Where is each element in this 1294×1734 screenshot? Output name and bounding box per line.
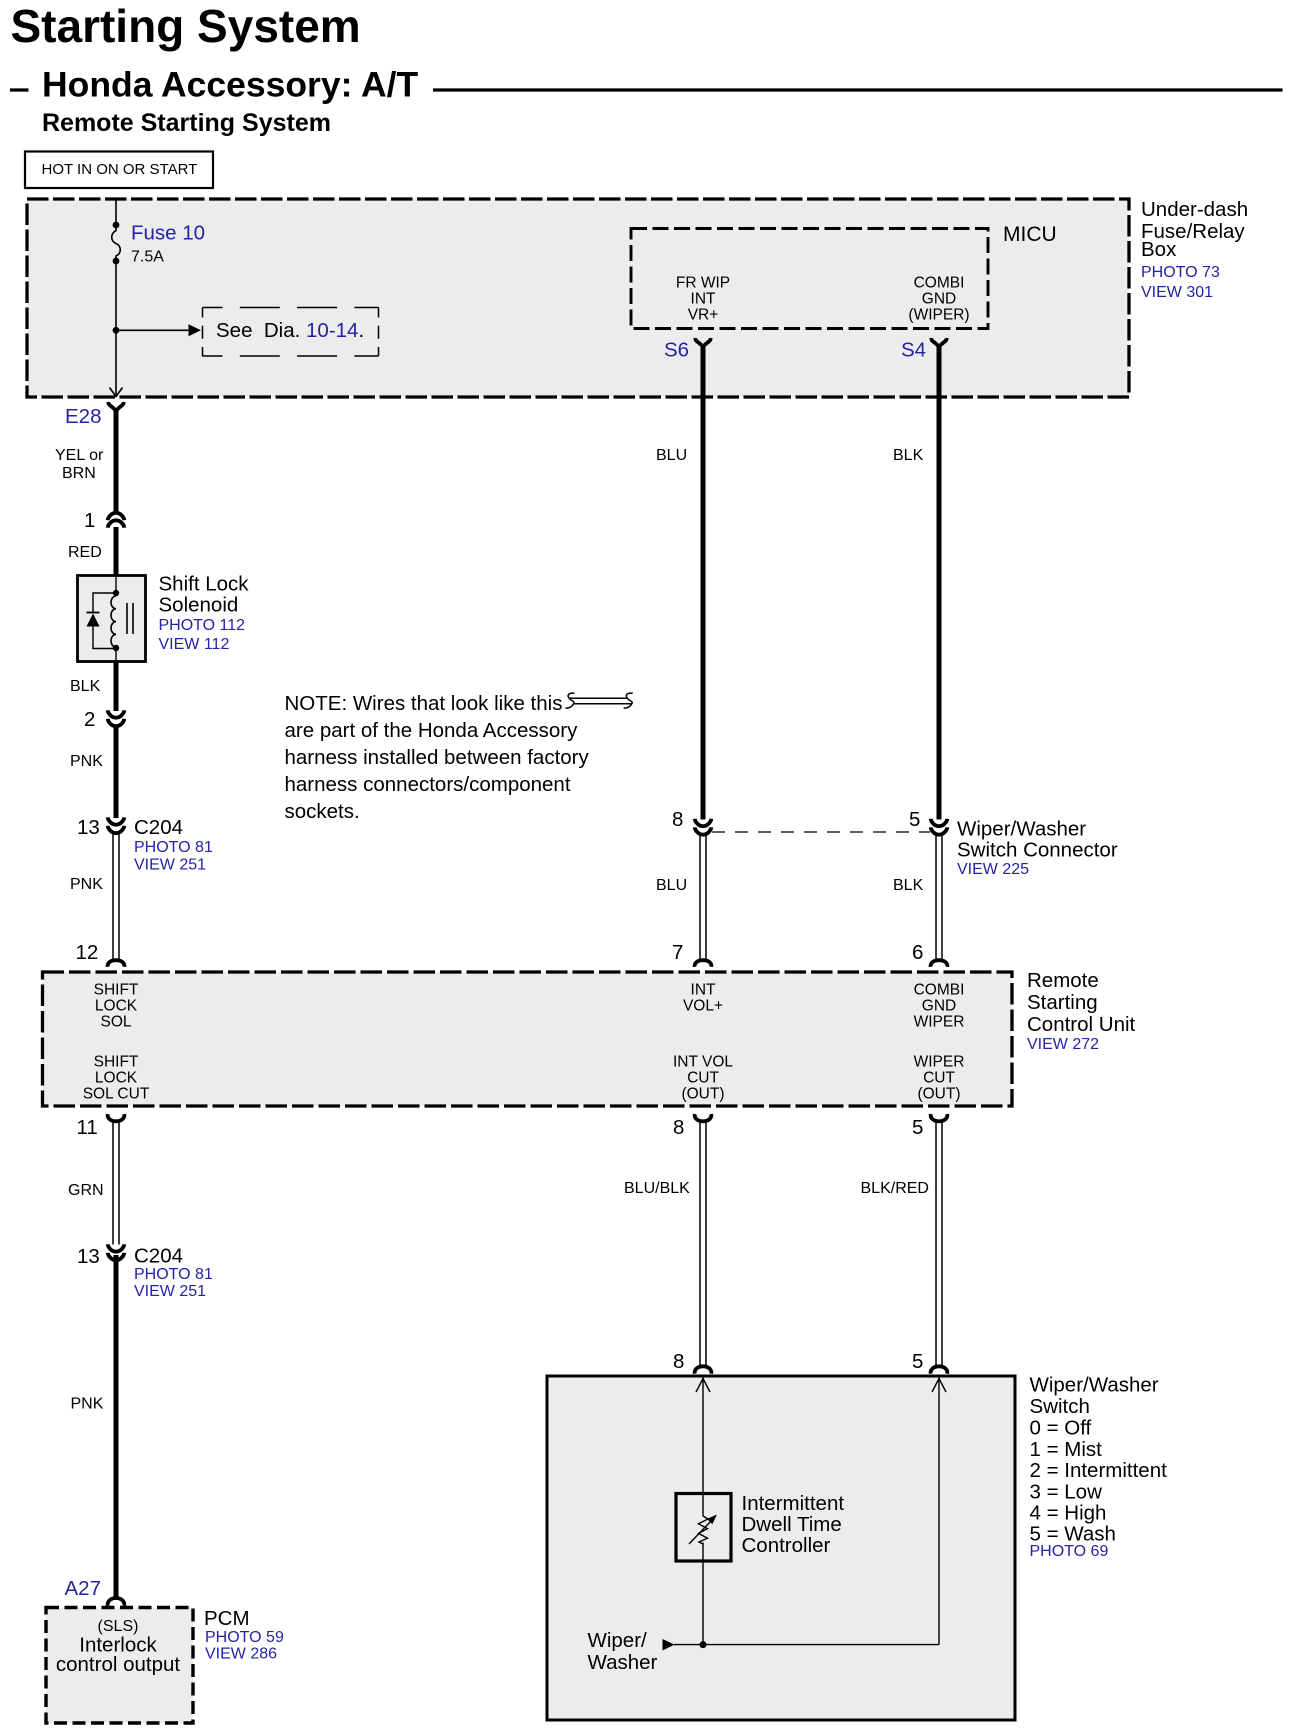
svg-text:MICU: MICU bbox=[1003, 223, 1057, 246]
svg-text:BLK/RED: BLK/RED bbox=[861, 1180, 929, 1197]
svg-text:1: 1 bbox=[84, 509, 95, 532]
remote starting control unit box bbox=[43, 972, 1013, 1106]
fuse Fuse 10 7.5A bbox=[112, 225, 121, 262]
wire PNK (connector 2 to C204) bbox=[114, 728, 119, 819]
svg-text:E28: E28 bbox=[65, 405, 101, 428]
internal wire from pin 5 down bbox=[938, 1378, 940, 1645]
solenoid coil bbox=[111, 596, 116, 647]
svg-text:INT VOL: INT VOL bbox=[673, 1054, 733, 1071]
arrowhead wiper/washer bbox=[663, 1639, 675, 1651]
svg-text:BLK: BLK bbox=[893, 447, 924, 464]
svg-text:VR+: VR+ bbox=[688, 307, 719, 324]
solenoid bottom node dot bbox=[113, 645, 119, 651]
wire BLK/RED (5 to wiper switch 5, accessory double wire) bbox=[935, 1122, 937, 1366]
svg-text:Switch: Switch bbox=[1030, 1395, 1090, 1418]
svg-text:BLU/BLK: BLU/BLK bbox=[624, 1180, 690, 1197]
wire RED (connector 1 to solenoid) bbox=[114, 527, 119, 577]
arrowhead up at pin 5 internal bbox=[932, 1379, 946, 1393]
svg-text:harness connectors/component: harness connectors/component bbox=[285, 773, 571, 796]
svg-text:GND: GND bbox=[922, 291, 956, 308]
svg-text:PNK: PNK bbox=[70, 753, 103, 770]
svg-text:12: 12 bbox=[76, 941, 99, 964]
under-dash fuse/relay box bbox=[27, 199, 1129, 397]
svg-text:S6: S6 bbox=[664, 339, 689, 362]
svg-text:C204: C204 bbox=[134, 816, 183, 839]
svg-text:BLK: BLK bbox=[893, 877, 924, 894]
heading rule right bbox=[433, 88, 1283, 91]
svg-text:PHOTO 69: PHOTO 69 bbox=[1030, 1543, 1109, 1560]
wiper/washer switch connector pin 8 bbox=[695, 819, 712, 826]
svg-text:Controller: Controller bbox=[742, 1534, 831, 1557]
svg-text:BLK: BLK bbox=[70, 678, 101, 695]
svg-text:Shift Lock: Shift Lock bbox=[159, 573, 250, 596]
connector S4 bbox=[931, 338, 946, 346]
svg-text:harness installed between fact: harness installed between factory bbox=[285, 746, 590, 769]
shift lock solenoid box bbox=[78, 576, 146, 662]
svg-text:1 = Mist: 1 = Mist bbox=[1030, 1438, 1103, 1461]
svg-text:SOL: SOL bbox=[100, 1014, 131, 1031]
svg-text:PNK: PNK bbox=[70, 876, 103, 893]
wire BLU (8 to control unit 7, accessory double wire) bbox=[699, 836, 701, 960]
svg-text:LOCK: LOCK bbox=[95, 1070, 138, 1087]
svg-text:(OUT): (OUT) bbox=[681, 1086, 724, 1103]
wire from HOT IN ON OR START box to fuse 10 bbox=[115, 199, 117, 225]
PCM box bbox=[46, 1608, 193, 1724]
connector C204 pin 13 lower bbox=[108, 1244, 125, 1251]
variable resistor zigzag bbox=[699, 1516, 709, 1544]
MICU box bbox=[631, 229, 988, 329]
svg-text:5: 5 bbox=[909, 808, 920, 831]
wire tap to See Dia box bbox=[116, 329, 189, 331]
svg-text:sockets.: sockets. bbox=[285, 800, 360, 823]
svg-text:INT: INT bbox=[691, 291, 717, 308]
svg-text:NOTE: Wires that look like thi: NOTE: Wires that look like this bbox=[285, 692, 563, 715]
variable resistor arrow bbox=[689, 1521, 711, 1544]
svg-text:LOCK: LOCK bbox=[95, 998, 138, 1015]
svg-text:3 = Low: 3 = Low bbox=[1030, 1481, 1103, 1504]
svg-text:HOT IN ON OR START: HOT IN ON OR START bbox=[42, 161, 198, 178]
svg-text:INT: INT bbox=[691, 982, 717, 999]
solenoid internal wire bottom bbox=[115, 647, 117, 661]
svg-text:PHOTO 112: PHOTO 112 bbox=[159, 617, 246, 634]
svg-text:13: 13 bbox=[77, 1245, 100, 1268]
svg-text:(SLS): (SLS) bbox=[98, 1618, 139, 1635]
diode branch wire lower bbox=[93, 626, 113, 649]
svg-text:SHIFT: SHIFT bbox=[94, 1054, 139, 1071]
diode triangle bbox=[87, 614, 100, 627]
svg-text:control output: control output bbox=[56, 1653, 181, 1676]
connector S6 bbox=[695, 338, 710, 346]
connector 2 bbox=[108, 710, 125, 717]
See Dia. 10-14. box bbox=[203, 307, 379, 309]
svg-text:PHOTO 81: PHOTO 81 bbox=[134, 1266, 213, 1283]
svg-text:Remote Starting System: Remote Starting System bbox=[42, 109, 331, 137]
arrowhead at bottom of fuse box wire bbox=[110, 388, 123, 397]
svg-text:4 = High: 4 = High bbox=[1030, 1502, 1107, 1525]
svg-text:Washer: Washer bbox=[588, 1651, 658, 1674]
arrowhead into See Dia box bbox=[189, 324, 202, 336]
svg-text:Control Unit: Control Unit bbox=[1027, 1013, 1136, 1036]
svg-text:BLU: BLU bbox=[656, 877, 687, 894]
svg-text:8: 8 bbox=[672, 808, 683, 831]
svg-text:WIPER: WIPER bbox=[914, 1014, 965, 1031]
svg-text:COMBI: COMBI bbox=[914, 982, 965, 999]
node E28 bbox=[108, 402, 123, 410]
internal wire from pin 8 to dwell controller bbox=[702, 1378, 704, 1517]
wire fuse to E28 bbox=[115, 261, 117, 396]
wire PNK (C204 to PCM A27) bbox=[114, 1255, 119, 1600]
svg-text:6: 6 bbox=[912, 941, 923, 964]
svg-text:See Dia. 10-14.: See Dia. 10-14. bbox=[216, 319, 364, 342]
svg-text:13: 13 bbox=[77, 816, 100, 839]
svg-text:2 = Intermittent: 2 = Intermittent bbox=[1030, 1459, 1168, 1482]
svg-text:SHIFT: SHIFT bbox=[94, 982, 139, 999]
svg-text:WIPER: WIPER bbox=[914, 1054, 965, 1071]
arrowhead up at pin 8 internal bbox=[696, 1379, 710, 1393]
svg-text:(WIPER): (WIPER) bbox=[908, 307, 969, 324]
svg-text:VOL+: VOL+ bbox=[683, 998, 723, 1015]
svg-text:A27: A27 bbox=[65, 1577, 101, 1600]
svg-text:Switch Connector: Switch Connector bbox=[957, 839, 1118, 862]
svg-text:S4: S4 bbox=[901, 339, 926, 362]
svg-text:GND: GND bbox=[922, 998, 956, 1015]
svg-text:Wiper/Washer: Wiper/Washer bbox=[1030, 1374, 1159, 1397]
note accessory wire glyph bbox=[569, 697, 628, 699]
wiper/washer switch connector pin 5 bbox=[931, 819, 948, 826]
svg-text:Solenoid: Solenoid bbox=[159, 594, 239, 617]
solenoid top node dot bbox=[113, 590, 119, 596]
svg-text:Dwell Time: Dwell Time bbox=[742, 1513, 842, 1536]
junction dot internal bbox=[700, 1641, 707, 1648]
svg-text:YEL or: YEL or bbox=[55, 447, 104, 464]
svg-text:PNK: PNK bbox=[71, 1396, 104, 1413]
connector 1 bbox=[108, 513, 125, 520]
intermittent dwell time controller box bbox=[676, 1494, 731, 1562]
svg-text:7: 7 bbox=[672, 941, 683, 964]
svg-text:2: 2 bbox=[84, 708, 95, 731]
wire PNK (C204 to control unit pin 12, accessory double wire) bbox=[112, 835, 114, 960]
svg-text:8: 8 bbox=[673, 1350, 684, 1373]
junction dot see-dia tap bbox=[113, 327, 120, 334]
internal horizontal wire bbox=[674, 1644, 939, 1646]
solenoid core lines bbox=[126, 603, 128, 634]
svg-text:COMBI: COMBI bbox=[914, 275, 965, 292]
dashed link between connector halves bbox=[712, 831, 930, 833]
svg-text:11: 11 bbox=[77, 1116, 98, 1139]
svg-text:Honda Accessory: A/T: Honda Accessory: A/T bbox=[42, 65, 418, 105]
wire GRN (11 to C204, accessory double wire) bbox=[112, 1122, 114, 1245]
svg-text:Starting System: Starting System bbox=[11, 0, 361, 52]
svg-text:Remote: Remote bbox=[1027, 969, 1099, 992]
junction dot fuse top bbox=[113, 222, 120, 229]
svg-text:(OUT): (OUT) bbox=[917, 1086, 960, 1103]
svg-text:Wiper/: Wiper/ bbox=[588, 1629, 648, 1652]
svg-text:GRN: GRN bbox=[68, 1182, 104, 1199]
heading rule left bbox=[10, 88, 29, 91]
svg-text:FR WIP: FR WIP bbox=[676, 275, 730, 292]
svg-text:VIEW 112: VIEW 112 bbox=[159, 636, 230, 653]
svg-text:5: 5 bbox=[912, 1350, 923, 1373]
wire BLK (5 to control unit 6, accessory double wire) bbox=[935, 836, 937, 960]
svg-text:are part of the Honda Accessor: are part of the Honda Accessory bbox=[285, 719, 579, 742]
svg-text:SOL CUT: SOL CUT bbox=[83, 1086, 150, 1103]
wire BLU/BLK (8 to wiper switch 8, accessory double wire) bbox=[699, 1122, 701, 1366]
wiper/washer switch box bbox=[547, 1376, 1015, 1720]
connector C204 pin 13 bbox=[108, 817, 125, 824]
wire BLU (S6 to wiper connector 8) bbox=[701, 345, 706, 820]
svg-text:PCM: PCM bbox=[204, 1607, 250, 1630]
wire YEL or BRN (E28 to connector 1) bbox=[114, 408, 119, 512]
svg-text:BLU: BLU bbox=[656, 447, 687, 464]
diode branch wire bbox=[93, 593, 116, 612]
svg-text:CUT: CUT bbox=[687, 1070, 719, 1087]
svg-text:VIEW 301: VIEW 301 bbox=[1141, 284, 1213, 301]
svg-text:Intermittent: Intermittent bbox=[742, 1492, 845, 1515]
wire BLK (solenoid to connector 2) bbox=[114, 661, 119, 711]
svg-text:5: 5 bbox=[912, 1116, 923, 1139]
svg-text:PHOTO 59: PHOTO 59 bbox=[205, 1629, 284, 1646]
svg-text:Fuse 10: Fuse 10 bbox=[131, 222, 205, 245]
svg-text:BRN: BRN bbox=[62, 465, 96, 482]
svg-text:VIEW 272: VIEW 272 bbox=[1027, 1036, 1099, 1053]
svg-text:VIEW 251: VIEW 251 bbox=[134, 857, 206, 874]
svg-text:VIEW 286: VIEW 286 bbox=[205, 1646, 277, 1663]
svg-text:VIEW 225: VIEW 225 bbox=[957, 861, 1029, 878]
svg-text:Starting: Starting bbox=[1027, 991, 1098, 1014]
svg-text:Wiper/Washer: Wiper/Washer bbox=[957, 818, 1086, 841]
junction dot fuse bottom bbox=[113, 258, 120, 265]
svg-text:Under-dash: Under-dash bbox=[1141, 198, 1248, 221]
label HOT IN ON OR START bbox=[25, 152, 213, 189]
diode cathode bar bbox=[87, 612, 100, 614]
svg-text:8: 8 bbox=[673, 1116, 684, 1139]
svg-text:VIEW 251: VIEW 251 bbox=[134, 1283, 206, 1300]
svg-text:RED: RED bbox=[68, 544, 102, 561]
svg-text:Box: Box bbox=[1141, 238, 1177, 261]
svg-text:PHOTO 81: PHOTO 81 bbox=[134, 839, 213, 856]
solenoid internal wire top bbox=[115, 577, 117, 596]
svg-text:CUT: CUT bbox=[923, 1070, 955, 1087]
wire BLK (S4 to wiper connector 5) bbox=[937, 345, 942, 820]
svg-text:7.5A: 7.5A bbox=[131, 249, 164, 266]
svg-text:PHOTO 73: PHOTO 73 bbox=[1141, 264, 1220, 281]
svg-text:0 = Off: 0 = Off bbox=[1030, 1417, 1092, 1440]
svg-text:C204: C204 bbox=[134, 1245, 183, 1268]
